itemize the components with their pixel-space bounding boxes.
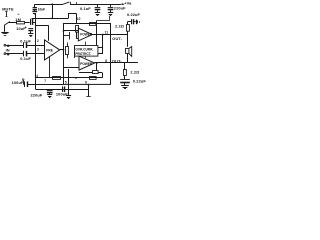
svg-text:4: 4 [36, 74, 38, 78]
svg-text:10: 10 [77, 17, 81, 21]
svg-text:2.2Ω: 2.2Ω [115, 24, 124, 29]
svg-text:0.1uF: 0.1uF [20, 56, 31, 61]
svg-text:OUT-: OUT- [112, 58, 122, 63]
svg-text:2.2Ω: 2.2Ω [130, 70, 139, 75]
svg-text:11: 11 [105, 31, 109, 35]
svg-text:PRE: PRE [46, 48, 53, 52]
svg-text:IN: IN [6, 47, 10, 52]
svg-text:OUT-: OUT- [112, 36, 122, 41]
svg-text:0.22uF: 0.22uF [127, 12, 141, 17]
svg-text:7: 7 [44, 79, 46, 83]
svg-text:220uF: 220uF [114, 5, 126, 10]
svg-text:8: 8 [105, 59, 107, 63]
svg-text:100uF: 100uF [12, 80, 24, 85]
svg-text:+Va: +Va [124, 1, 132, 6]
svg-text:0.1uF: 0.1uF [20, 38, 31, 43]
svg-text:≈: ≈ [18, 13, 20, 17]
svg-text:0.22uF: 0.22uF [133, 79, 147, 84]
svg-text:6: 6 [85, 81, 87, 85]
svg-text:OVR.CURR.: OVR.CURR. [75, 47, 93, 51]
svg-text:+: + [7, 52, 9, 56]
svg-text:POWER: POWER [80, 33, 93, 37]
svg-text:PROTECT.: PROTECT. [75, 52, 91, 56]
svg-text:1M: 1M [15, 17, 21, 22]
svg-text:100uF: 100uF [56, 91, 68, 96]
svg-text:POWER: POWER [80, 62, 93, 66]
svg-text:0.1uF: 0.1uF [80, 6, 91, 11]
svg-text:MUTE: MUTE [2, 6, 14, 11]
svg-text:+: + [25, 25, 27, 29]
svg-text:10uF: 10uF [38, 7, 45, 11]
svg-text:3: 3 [37, 48, 39, 52]
svg-text:220uF: 220uF [31, 93, 43, 98]
svg-text:5: 5 [65, 81, 67, 85]
svg-text:2: 2 [37, 39, 39, 43]
